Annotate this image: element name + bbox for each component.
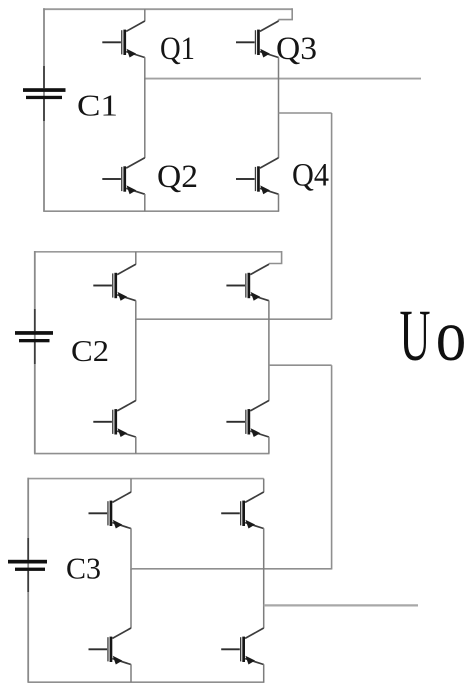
wire cell2 left rail (34, 251, 36, 454)
svg-text:C1: C1 (77, 88, 118, 123)
wire cell1 top-right jog (279, 8, 293, 19)
transistor cell3 upper-right (221, 492, 264, 529)
svg-text:o: o (436, 295, 467, 376)
wire Q1 emitter to mid rail (144, 57, 146, 79)
wire connector cell2 to cell3 (331, 365, 333, 569)
wire Q3 collector stub (278, 20, 280, 22)
svg-text:Q4: Q4 (292, 158, 329, 194)
transistor cell2 lower-left (93, 401, 136, 438)
transistor cell3 lower-right (221, 628, 264, 665)
svg-text:Q2: Q2 (157, 159, 198, 195)
wire cell1 bottom bus (43, 210, 279, 212)
wire Q1 collector stub (144, 9, 146, 21)
node output bottom line (264, 604, 418, 606)
transistor cell3 upper-left (89, 492, 132, 529)
transistor Q2 (102, 158, 145, 195)
capacitor C2 (15, 309, 53, 364)
node cell2 mid rail (136, 318, 332, 320)
wire cell3 right leg emitter through mid to lower (263, 528, 265, 628)
wire cell3 left leg mid to lower (130, 569, 132, 629)
wire cell2 left emitter to mid rail (135, 301, 137, 320)
node cell3 mid rail (131, 568, 332, 570)
wire cell3 bottom bus (28, 681, 265, 683)
wire cell1 right leg Q3 emitter to Q4 (278, 57, 280, 158)
wire cell3 top bus (28, 478, 264, 480)
wire cell3 lower-left emitter to bottom (130, 664, 132, 682)
wire cell2 lower-right emitter to bottom (268, 437, 270, 454)
wire cell2 right collector stub (268, 264, 270, 265)
wire cell1 left rail (43, 8, 45, 211)
wire Q2 emitter to bottom (144, 194, 146, 211)
wire cell2 right leg emitter to lower (268, 301, 270, 401)
wire cell2 step to connector (269, 364, 332, 366)
wire cell1 step to connector (279, 112, 332, 114)
wire cell2 lower-left emitter to bottom (135, 437, 137, 454)
transistor cell2 lower-right (226, 401, 269, 438)
transistor cell2 upper-right (226, 264, 269, 301)
transistor cell2 upper-left (93, 264, 136, 301)
label Uo output voltage (400, 295, 467, 376)
wire cell2 bottom bus (34, 453, 270, 455)
wire cell2 top-right jog (269, 251, 282, 264)
svg-text:Q3: Q3 (276, 31, 317, 67)
wire Q4 emitter to bottom (278, 194, 280, 211)
wire cell2 left collector stub (135, 252, 137, 265)
svg-text:Q1: Q1 (160, 31, 195, 67)
transistor Q1 (102, 21, 145, 58)
transistor cell3 lower-left (89, 628, 132, 665)
wire cell3 left rail (27, 478, 29, 682)
wire connector cell1 to cell2 (331, 113, 333, 319)
transistor Q4 (236, 158, 279, 195)
wire cell1 top bus (43, 8, 292, 10)
capacitor C3 (8, 538, 47, 592)
wire cell3 lower-right emitter to bottom (263, 664, 265, 682)
transistor Q3 (236, 21, 279, 58)
capacitor C1 (23, 66, 66, 121)
wire cell3 left collector stub (130, 479, 132, 493)
node output top line (145, 78, 421, 80)
wire cell3 right collector stub (263, 479, 265, 493)
wire cell1 left leg mid to Q2 (144, 79, 146, 158)
svg-text:C3: C3 (66, 551, 101, 586)
wire cell2 top bus (34, 251, 282, 253)
wire cell3 left emitter to mid rail (130, 528, 132, 569)
svg-text:U: U (400, 295, 431, 376)
svg-text:C2: C2 (71, 333, 109, 368)
wire cell2 left leg mid to lower (135, 319, 137, 401)
